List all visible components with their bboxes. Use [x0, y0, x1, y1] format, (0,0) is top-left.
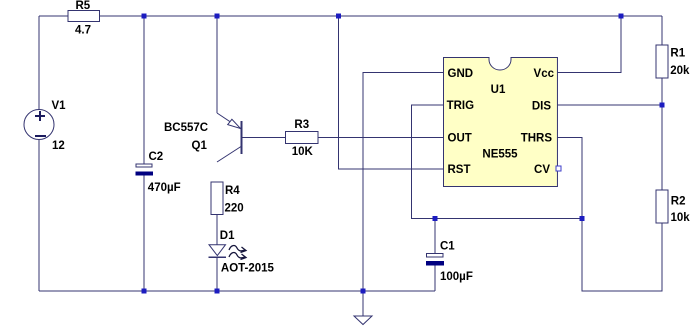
wire THRS net (THRS pin down and along bottom to R2) — [557, 138, 662, 292]
wire top rail corner down to R1 — [661, 16, 663, 45]
wire C2 top leg — [143, 16, 145, 164]
wire RST net (top rail to RST pin) — [339, 16, 444, 169]
svg-text:AOT-2015: AOT-2015 — [221, 262, 275, 274]
LED D1 light arrow 2 — [229, 253, 245, 258]
svg-text:D1: D1 — [220, 230, 235, 242]
junction dot ground rail / ground symbol — [361, 289, 366, 294]
svg-text:GND: GND — [448, 68, 474, 80]
LED D1 triangle — [209, 245, 226, 256]
svg-text:U1: U1 — [491, 84, 506, 96]
U1 pin CV no-connect square — [556, 166, 561, 171]
ground symbol triangle — [354, 316, 372, 325]
svg-text:R5: R5 — [76, 0, 91, 12]
resistor R5 — [68, 11, 100, 22]
wire C1 top leg — [434, 219, 436, 254]
svg-text:100µF: 100µF — [440, 271, 473, 283]
transistor Q1 emitter diagonal — [217, 113, 241, 129]
junction dot ground rail / C2 — [142, 289, 147, 294]
svg-text:NE555: NE555 — [482, 149, 518, 161]
junction dot top rail / RST leg — [336, 14, 341, 19]
svg-text:V1: V1 — [52, 100, 67, 112]
wire R3 to OUT pin — [318, 137, 444, 139]
transistor Q1 base bar — [241, 121, 243, 154]
junction dot top rail / C2 — [142, 14, 147, 19]
resistor R3 — [286, 132, 319, 144]
svg-text:R1: R1 — [670, 48, 685, 60]
svg-text:CV: CV — [534, 164, 550, 176]
wire base Q1 to R3 — [241, 137, 286, 139]
svg-text:220: 220 — [225, 203, 244, 215]
LED D1 light arrow 1 — [229, 246, 246, 260]
wire top rail (R5 to right corner) — [99, 15, 662, 17]
voltage source V1 plus sign — [35, 111, 46, 136]
resistor R1 — [656, 45, 668, 78]
svg-text:R2: R2 — [671, 196, 686, 208]
svg-text:C2: C2 — [149, 151, 164, 163]
svg-text:RST: RST — [448, 164, 471, 176]
svg-text:TRIG: TRIG — [447, 100, 475, 112]
capacitor C1 bottom plate — [426, 261, 444, 266]
svg-text:Vcc: Vcc — [534, 68, 555, 80]
wire GND net (GND pin to ground rail) — [363, 73, 444, 292]
wire DIS net (DIS pin to R1/R2 junction) — [557, 104, 662, 106]
svg-text:R4: R4 — [225, 185, 240, 197]
svg-text:Q1: Q1 — [192, 140, 208, 152]
svg-text:10K: 10K — [292, 146, 314, 158]
wire R4 to D1 — [216, 215, 218, 246]
transistor Q1 collector diagonal — [217, 147, 241, 163]
capacitor C2 top plate — [136, 164, 152, 167]
svg-text:4.7: 4.7 — [75, 25, 91, 37]
wire ground stub — [362, 291, 364, 316]
wire Q1 emitter vertical — [216, 16, 218, 113]
capacitor C1 top plate — [427, 254, 444, 258]
svg-text:THRS: THRS — [521, 133, 553, 145]
svg-text:DIS: DIS — [532, 100, 552, 112]
svg-text:10k: 10k — [671, 212, 691, 224]
svg-text:R3: R3 — [294, 119, 309, 131]
wire C2 bottom leg — [143, 175, 145, 291]
wire TRIG net (TRIG pin to C1 rail) — [412, 105, 583, 219]
transistor Q1 (BC557C PNP) — [217, 113, 242, 162]
LED D1 — [209, 245, 226, 258]
junction dot ground rail / D1 — [215, 289, 220, 294]
junction dot top rail / Q1 emitter — [215, 14, 220, 19]
junction dot TRIG rail / C1 — [433, 216, 438, 221]
voltage source V1 minus sign — [35, 135, 46, 137]
resistor R4 — [211, 182, 223, 215]
wire bottom ground rail — [39, 290, 435, 292]
LED D1 cathode bar — [209, 256, 226, 258]
wire D1 to ground rail — [216, 257, 218, 291]
svg-text:12: 12 — [52, 140, 65, 152]
junction dot TRIG rail / THRS leg — [580, 216, 585, 221]
svg-text:BC557C: BC557C — [164, 122, 208, 134]
wire V1 bottom leg — [38, 139, 40, 291]
wire C1 bottom leg — [434, 266, 436, 292]
transistor Q1 emitter arrow — [228, 119, 241, 128]
resistor R2 — [656, 190, 668, 223]
wire Vcc net (Vcc pin to top rail) — [557, 16, 621, 73]
junction dot DIS / R1 / R2 — [660, 103, 665, 108]
wire top rail left (V1 to R5) — [39, 15, 68, 17]
svg-text:C1: C1 — [440, 241, 455, 253]
svg-text:20k: 20k — [670, 65, 690, 77]
junction dot top rail / Vcc leg — [619, 14, 624, 19]
wire V1 top leg — [38, 16, 40, 110]
op-amp U1 NE555 body — [444, 58, 558, 187]
wire R1 bottom to R2 top — [661, 78, 663, 190]
voltage source V1 circle — [24, 110, 54, 140]
capacitor C2 bottom plate — [136, 172, 154, 176]
svg-text:470µF: 470µF — [148, 182, 181, 194]
svg-text:OUT: OUT — [448, 133, 472, 145]
